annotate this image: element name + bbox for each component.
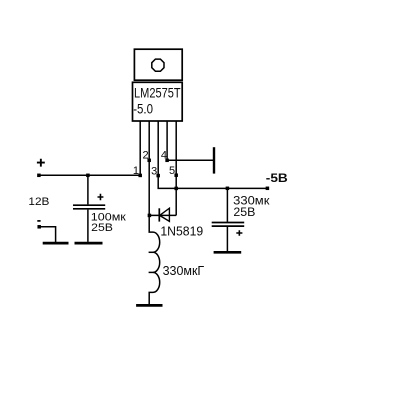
svg-text:-5.0: -5.0 xyxy=(133,101,153,116)
node pin2 dot xyxy=(147,159,151,163)
U1 pin 4 lead wire xyxy=(166,121,168,160)
node input minus terminal dot xyxy=(37,225,41,229)
ground bar at pin 4 xyxy=(213,147,215,173)
wire pin4 to ground bar xyxy=(167,159,214,161)
ground bar at L1 xyxy=(136,304,162,307)
svg-text:3: 3 xyxy=(151,166,157,178)
diode VD1 1N5819 cathode bar xyxy=(158,208,160,221)
node output endpoint dot xyxy=(266,187,270,191)
ground bar at C2 xyxy=(214,251,242,254)
ground bar at minus terminal xyxy=(43,242,69,245)
svg-text:-5В: -5В xyxy=(266,171,288,185)
capacitor C2 330uF 25V xyxy=(212,188,245,251)
node pin3 dot xyxy=(156,174,160,178)
svg-text:25В: 25В xyxy=(233,207,255,219)
node junction C1 top dot xyxy=(86,174,90,178)
regulator IC U1 LM2575T-5.0 package tab xyxy=(134,49,182,80)
node pin4 dot xyxy=(165,159,169,163)
input minus terminal label xyxy=(37,220,40,222)
U1 body xyxy=(133,82,183,121)
U1 pin 2 lead wire down to diode node xyxy=(148,121,150,215)
wire input plus to pin 1 xyxy=(39,174,140,176)
svg-text:330мкГ: 330мкГ xyxy=(163,263,205,278)
inductor L1 330uH xyxy=(149,215,160,304)
svg-text:5: 5 xyxy=(169,165,175,177)
capacitor C1 100uF 25V xyxy=(73,175,105,242)
node pin5 dot xyxy=(174,173,178,177)
U1 pin 1 lead wire xyxy=(139,121,141,175)
node C2 top junction dot xyxy=(226,187,230,191)
U1 pin 5 lead wire down to diode anode corner xyxy=(175,121,177,215)
node input terminal dot xyxy=(37,174,41,178)
diode VD1 triangle xyxy=(160,208,170,221)
svg-text:1N5819: 1N5819 xyxy=(160,223,203,238)
node diode junction dot xyxy=(148,214,152,218)
ground bar at C1 xyxy=(75,242,103,245)
node pin1 dot xyxy=(138,174,142,178)
C2 plus polarity mark xyxy=(236,230,242,236)
svg-text:12В: 12В xyxy=(28,196,49,208)
U1 pin 3 lead wire and output wire to -5V xyxy=(158,121,267,188)
svg-text:330мк: 330мк xyxy=(233,196,270,208)
U1 mounting hole xyxy=(152,59,164,71)
svg-text:LM2575T: LM2575T xyxy=(134,85,181,100)
wire minus terminal to ground xyxy=(39,227,55,242)
node output junction 4-way dot xyxy=(174,187,178,191)
input plus terminal label xyxy=(37,159,45,167)
C1 plus polarity mark xyxy=(98,194,104,200)
svg-text:25В: 25В xyxy=(91,222,113,234)
wire diode row pin2-node to pin5-line xyxy=(149,214,176,216)
